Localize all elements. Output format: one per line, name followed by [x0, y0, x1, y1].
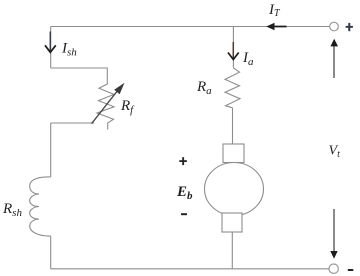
wire wiper horizontal	[51, 122, 94, 124]
wire motor to bottom	[231, 232, 233, 269]
svg-text:Vt: Vt	[329, 144, 341, 161]
voltage arrow down	[330, 209, 337, 259]
motor armature circle	[205, 163, 264, 216]
wire Ra to motor	[232, 108, 234, 144]
wire top horizontal	[51, 26, 330, 28]
resistor Ra	[225, 68, 240, 108]
wire left lower vertical	[50, 123, 52, 177]
voltage arrow up	[330, 39, 338, 78]
wire horizontal to Rf top	[51, 68, 108, 84]
svg-text:Rf: Rf	[120, 98, 135, 116]
svg-text:Rsh: Rsh	[2, 201, 22, 219]
wire left upper vertical	[50, 27, 52, 69]
terminal bottom right	[329, 264, 338, 273]
motor brush bottom	[222, 213, 242, 232]
wiper arrow of Rf	[92, 83, 125, 124]
wire middle branch upper	[232, 27, 234, 68]
terminal top right	[330, 22, 339, 31]
svg-text:Ra: Ra	[196, 79, 212, 97]
svg-text:Ia: Ia	[242, 50, 254, 68]
svg-text:Eb: Eb	[176, 184, 193, 202]
current arrow IT	[266, 23, 286, 31]
motor brush top	[223, 144, 244, 163]
resistor Rf (rheostat zigzag)	[97, 84, 114, 130]
label minus terminal	[348, 269, 354, 271]
svg-text:IT: IT	[268, 2, 281, 19]
svg-text:Ish: Ish	[61, 41, 77, 59]
label plus terminal	[346, 23, 353, 31]
current arrow Ish	[45, 32, 56, 53]
current arrow Ia	[228, 42, 239, 60]
label plus Eb	[179, 157, 187, 165]
wire below coil	[50, 236, 52, 269]
inductor Rsh coil	[30, 177, 51, 236]
wire bottom horizontal	[51, 268, 329, 270]
label minus Eb	[181, 213, 187, 215]
